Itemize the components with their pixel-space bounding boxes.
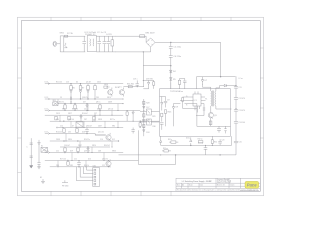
svg-text:Q16 4k7: Q16 4k7 bbox=[64, 145, 70, 147]
wire stub bbox=[85, 161, 87, 167]
HV rail left drop bbox=[196, 77, 198, 89]
svg-text:C9: C9 bbox=[167, 99, 170, 101]
svg-text:A4: A4 bbox=[182, 184, 184, 187]
inner border frame bbox=[21, 21, 260, 192]
svg-text:R6: R6 bbox=[73, 88, 75, 90]
svg-text:C18: C18 bbox=[147, 120, 150, 122]
svg-text:R37 1n: R37 1n bbox=[110, 119, 115, 121]
transistor Q1 bbox=[108, 90, 113, 95]
wire row A bbox=[50, 83, 123, 85]
capacitor C21 bbox=[204, 145, 208, 155]
bridge diode marks bbox=[148, 39, 153, 45]
junction dot bbox=[70, 103, 71, 104]
capacitor C18 bbox=[142, 119, 145, 120]
svg-text:C24: C24 bbox=[60, 126, 63, 128]
svg-text:Q36 100: Q36 100 bbox=[68, 119, 74, 121]
svg-text:R10 4k7: R10 4k7 bbox=[82, 113, 88, 115]
svg-text:C37: C37 bbox=[94, 113, 97, 115]
wire Q4 row bbox=[95, 134, 106, 136]
frame zone ticks bottom bbox=[51, 191, 171, 196]
wire stub bbox=[111, 141, 113, 147]
title block row line 3 bbox=[176, 187, 260, 189]
resistor R14 bbox=[68, 116, 70, 120]
svg-text:C15: C15 bbox=[239, 142, 242, 144]
svg-text:C4: C4 bbox=[84, 109, 86, 111]
neutral drop wire bbox=[143, 52, 171, 87]
svg-text:ZD38: ZD38 bbox=[56, 139, 60, 141]
resistor R15 bbox=[93, 116, 95, 120]
ground rail upper bbox=[161, 136, 232, 145]
svg-text:VR4: VR4 bbox=[112, 126, 115, 128]
capacitor C16 bbox=[77, 161, 81, 167]
svg-text:C6 220u: C6 220u bbox=[174, 56, 182, 58]
wire stub bbox=[79, 141, 81, 147]
junction rail-bottom bbox=[235, 108, 236, 109]
opto U3 bbox=[147, 119, 152, 125]
controller IC1 bbox=[193, 94, 201, 106]
snubber diode D7 bbox=[201, 77, 203, 85]
junction dot bbox=[65, 140, 66, 141]
rail segment bbox=[235, 99, 237, 109]
svg-text:Size: Size bbox=[177, 185, 180, 187]
clamp resistor R22 bbox=[178, 80, 180, 84]
ground stub E1 bbox=[41, 179, 45, 184]
svg-text:VR33: VR33 bbox=[112, 151, 116, 153]
diode D17 bbox=[143, 106, 145, 108]
junction dot bbox=[57, 103, 58, 104]
small box U4 bbox=[76, 122, 83, 127]
svg-text:ZD7: ZD7 bbox=[84, 119, 87, 121]
clamp capacitor C7 bbox=[180, 79, 187, 89]
component C20 bbox=[218, 139, 222, 145]
junction dot bbox=[64, 110, 65, 111]
current sense stub bbox=[193, 104, 197, 127]
svg-text:D1 3: D1 3 bbox=[45, 97, 49, 99]
frame zone ticks right bbox=[260, 48, 263, 138]
zener D5 on bulk line bbox=[170, 66, 173, 89]
svg-text:C12 470: C12 470 bbox=[239, 98, 245, 100]
wire row G bbox=[58, 127, 123, 129]
rail segment bbox=[235, 123, 237, 141]
svg-text:C14 100: C14 100 bbox=[239, 122, 245, 124]
svg-text:R28: R28 bbox=[146, 102, 149, 104]
svg-text:VR27: VR27 bbox=[68, 113, 72, 115]
resistor R9 bbox=[104, 86, 108, 88]
rail segment bbox=[235, 111, 237, 121]
wire stub bbox=[91, 147, 93, 153]
inner wire to bottom bbox=[166, 113, 174, 126]
junction dot bbox=[94, 121, 95, 122]
svg-text:Q36 4k7: Q36 4k7 bbox=[86, 126, 92, 128]
svg-text:D15: D15 bbox=[97, 109, 100, 111]
varistor RV1 bbox=[64, 43, 67, 48]
svg-text:SW1: SW1 bbox=[60, 33, 65, 35]
resistor R26 bbox=[126, 112, 128, 115]
svg-text:D1 0: D1 0 bbox=[45, 151, 49, 153]
svg-text:C3: C3 bbox=[60, 97, 62, 99]
svg-text:VR30: VR30 bbox=[68, 139, 72, 141]
aux winding components bbox=[196, 104, 205, 116]
junction dot bbox=[111, 146, 112, 147]
svg-text:C5 220u: C5 220u bbox=[174, 47, 182, 49]
svg-text:D15 x: D15 x bbox=[186, 138, 190, 140]
junction dot bbox=[78, 160, 79, 161]
diode D11 bbox=[86, 104, 88, 111]
svg-text:ZD37: ZD37 bbox=[78, 145, 82, 147]
svg-text:D18: D18 bbox=[146, 132, 149, 134]
svg-text:L2 xx: L2 xx bbox=[239, 78, 243, 80]
resistor R6 chain bbox=[70, 84, 72, 99]
resistor R16 bbox=[63, 129, 65, 133]
wire stub bbox=[83, 121, 85, 127]
svg-text:S: S bbox=[186, 105, 188, 107]
wire primary bottom to mosfet bbox=[210, 106, 212, 113]
svg-text:D19 R36: D19 R36 bbox=[146, 79, 153, 81]
junction dot bbox=[104, 127, 105, 128]
bulk capacitor C6 bbox=[169, 56, 173, 66]
resistor R29 bbox=[143, 114, 145, 117]
svg-text:D1 4: D1 4 bbox=[45, 82, 49, 84]
connector wires bbox=[76, 167, 92, 181]
junction dot bbox=[74, 110, 75, 111]
capacitor C2 bbox=[97, 36, 101, 52]
svg-text:C21 1n: C21 1n bbox=[198, 143, 203, 145]
svg-text:D1 2: D1 2 bbox=[45, 109, 49, 111]
diode D15 bbox=[190, 137, 192, 145]
resistor R25 inner bbox=[164, 110, 166, 114]
wire row F bbox=[50, 120, 160, 122]
IC1 pin stubs bbox=[180, 97, 206, 104]
svg-text:R33 xx: R33 xx bbox=[163, 148, 168, 150]
svg-text:Q3: Q3 bbox=[214, 115, 218, 117]
bridge rectifier BR1 bbox=[146, 36, 155, 52]
wire stub bbox=[71, 153, 73, 161]
svg-text:R4: R4 bbox=[173, 71, 176, 73]
left block labels bbox=[26, 32, 155, 187]
svg-text:R32 xx: R32 xx bbox=[198, 139, 203, 141]
wire secondary bottom bbox=[216, 106, 232, 109]
junction HV bbox=[220, 76, 221, 77]
transistor Q2 bbox=[119, 90, 124, 95]
logo Pace bbox=[240, 181, 259, 191]
snubber cap C8 bbox=[217, 126, 221, 132]
junction dot bbox=[86, 103, 87, 104]
svg-text:D17: D17 bbox=[146, 107, 149, 109]
junction dot bbox=[83, 127, 84, 128]
zener chain left bbox=[37, 140, 41, 169]
frame zone ticks left bbox=[18, 48, 22, 173]
svg-text:R34 2k2: R34 2k2 bbox=[104, 145, 110, 147]
capacitor C15 bbox=[85, 128, 89, 134]
junction neutral mid bbox=[142, 65, 144, 67]
svg-text:C4: C4 bbox=[70, 102, 72, 104]
net arrow D14 bbox=[45, 83, 50, 85]
wire cluster to neutral bbox=[123, 86, 144, 88]
svg-text:D7: D7 bbox=[205, 80, 208, 82]
wire row K bbox=[50, 152, 123, 154]
capacitor C1 bbox=[82, 36, 86, 52]
wire stub bbox=[104, 121, 106, 127]
startup chain R36 bbox=[153, 82, 155, 85]
wire stub bbox=[103, 153, 105, 161]
output rail bbox=[235, 76, 237, 86]
svg-text:PE GND: PE GND bbox=[62, 185, 69, 187]
resistor R27 bbox=[139, 123, 141, 126]
resistor R33 bbox=[164, 150, 168, 152]
wire plug to connector bbox=[57, 43, 61, 45]
svg-text:ZD24: ZD24 bbox=[97, 82, 101, 84]
svg-text:L.C Switching Power Supply - 5: L.C Switching Power Supply - 50 HRF bbox=[182, 180, 213, 183]
resistor R1 bbox=[111, 36, 113, 52]
earth chain cap bars bbox=[30, 143, 33, 158]
junction startup bbox=[143, 80, 144, 81]
svg-text:ZD8: ZD8 bbox=[98, 151, 101, 153]
wire secondary top to output diode bbox=[216, 86, 224, 91]
wire stub bbox=[117, 104, 119, 111]
svg-text:E1: E1 bbox=[40, 177, 42, 179]
junction dot bbox=[59, 121, 60, 122]
diode D16 bbox=[132, 111, 134, 122]
svg-text:D7: D7 bbox=[72, 126, 74, 128]
svg-text:D20: D20 bbox=[56, 119, 59, 121]
bulk feed into box bbox=[170, 83, 172, 89]
svg-text:D37: D37 bbox=[83, 102, 86, 104]
transformer T1 secondary winding bbox=[214, 91, 217, 106]
IC1 bottom pin stubs bbox=[195, 91, 200, 112]
svg-text:CN1: CN1 bbox=[93, 166, 96, 168]
svg-text:C4 R1: C4 R1 bbox=[106, 34, 113, 36]
connector CN1 bbox=[93, 168, 100, 187]
wire row H bbox=[50, 134, 106, 136]
svg-text:Q1 x: Q1 x bbox=[106, 87, 110, 89]
svg-text:VR1: VR1 bbox=[53, 100, 56, 102]
HV rail bbox=[197, 76, 236, 78]
junction row B bbox=[94, 98, 95, 99]
junction row A bbox=[70, 83, 71, 84]
svg-text:C19 x: C19 x bbox=[133, 79, 138, 81]
svg-text:R27 100: R27 100 bbox=[60, 159, 66, 161]
net arrow row D bbox=[45, 110, 50, 112]
resistor R19 bbox=[77, 148, 79, 152]
wire bridge to transformer corner bbox=[155, 42, 221, 76]
resistor R12 bbox=[99, 105, 101, 109]
svg-text:C13 470: C13 470 bbox=[239, 110, 245, 112]
junction dot bbox=[111, 115, 112, 116]
wire stub bbox=[59, 115, 61, 121]
svg-text:R36 1k: R36 1k bbox=[84, 165, 89, 167]
svg-text:D10: D10 bbox=[88, 159, 91, 161]
junction dot bbox=[87, 152, 88, 153]
capacitor C17 bbox=[131, 128, 134, 134]
junction dot bbox=[117, 127, 118, 128]
junction dot bbox=[62, 127, 63, 128]
svg-text:R34: R34 bbox=[214, 142, 217, 144]
svg-text:R31 x: R31 x bbox=[168, 139, 172, 141]
resistor R7 chain bbox=[79, 84, 81, 99]
svg-text:C: C bbox=[26, 147, 28, 149]
svg-text:R5: R5 bbox=[173, 79, 176, 81]
svg-text:www.paceworldwide.com: www.paceworldwide.com bbox=[240, 189, 259, 192]
middle labels bbox=[167, 80, 218, 117]
svg-text:T1: T1 bbox=[205, 99, 208, 101]
resistor R34 bbox=[211, 140, 213, 144]
wire stub bbox=[117, 121, 119, 127]
box bottom rail bbox=[197, 125, 231, 127]
feedback column wire bbox=[143, 99, 145, 136]
svg-text:Q21 2k2: Q21 2k2 bbox=[98, 132, 104, 134]
svg-text:F1 T2A: F1 T2A bbox=[67, 32, 73, 35]
wire stub bbox=[99, 111, 101, 116]
relay K1 bbox=[41, 147, 48, 152]
svg-text:R37 47k: R37 47k bbox=[72, 109, 78, 111]
junction neutral-caps bbox=[170, 65, 171, 66]
rail labels bbox=[239, 78, 245, 144]
wire filter to caps bbox=[96, 36, 115, 52]
resistor R10 bbox=[64, 105, 66, 109]
svg-text:Q2 x: Q2 x bbox=[118, 87, 122, 89]
resistor R24 inner bbox=[182, 98, 184, 101]
resistor R11 bbox=[74, 105, 76, 109]
output cap C15 bbox=[234, 141, 238, 143]
capacitor C9 inner bbox=[164, 97, 167, 108]
earth chain wire bbox=[30, 138, 32, 165]
resistor R28 bbox=[143, 101, 145, 104]
svg-text:R6 47k: R6 47k bbox=[59, 102, 64, 104]
svg-text:R35 2M2: R35 2M2 bbox=[127, 84, 134, 86]
title block row line 1 bbox=[176, 182, 260, 184]
wire row B bbox=[50, 98, 123, 100]
wire stub bbox=[87, 104, 89, 111]
svg-text:K1: K1 bbox=[41, 146, 43, 148]
inner edge components bbox=[161, 97, 163, 111]
junction dot bbox=[79, 146, 80, 147]
svg-text:C16: C16 bbox=[100, 139, 103, 141]
left block density: extra stubs and labels bbox=[58, 99, 118, 167]
svg-text:D4: D4 bbox=[76, 82, 78, 84]
svg-text:C11: C11 bbox=[239, 87, 242, 89]
line filter LF1 bbox=[87, 36, 96, 52]
svg-text:ZD3: ZD3 bbox=[56, 165, 59, 167]
svg-text:Q28 47k: Q28 47k bbox=[82, 97, 88, 99]
inductor L3 bottom bbox=[160, 136, 162, 145]
capacitor C4 bbox=[107, 36, 111, 52]
junction row F bbox=[140, 121, 141, 122]
svg-text:D29: D29 bbox=[70, 151, 73, 153]
diode D13b bbox=[87, 147, 89, 153]
wire row D bbox=[50, 110, 140, 112]
opto U2 bbox=[147, 109, 152, 115]
svg-text:VR5: VR5 bbox=[70, 165, 73, 167]
svg-text:C22: C22 bbox=[56, 151, 59, 153]
junction dot bbox=[99, 115, 100, 116]
diode D12 bbox=[80, 115, 82, 121]
wire stub bbox=[70, 99, 72, 104]
top chain labels bbox=[60, 32, 182, 81]
junction dot bbox=[75, 127, 76, 128]
net arrow row K bbox=[45, 152, 50, 154]
net arrow D13 bbox=[45, 98, 50, 100]
svg-text:Date: Date bbox=[200, 184, 203, 187]
resistor R13 bbox=[55, 116, 57, 120]
svg-text:R14 2k2: R14 2k2 bbox=[56, 132, 62, 134]
title block col lines bbox=[182, 178, 241, 188]
svg-text:TOP204YAI xx: TOP204YAI xx bbox=[170, 90, 183, 93]
wire row L bbox=[45, 160, 139, 162]
wire stub bbox=[94, 115, 96, 121]
svg-text:ZD19: ZD19 bbox=[56, 113, 60, 115]
return wire bbox=[138, 130, 175, 164]
earth ground arrow bbox=[30, 166, 33, 169]
junction bulk top bbox=[170, 42, 171, 43]
column junction dots bbox=[143, 103, 144, 104]
resistor R17 bbox=[76, 129, 78, 133]
svg-text:R29: R29 bbox=[152, 116, 155, 118]
svg-text:D6: D6 bbox=[70, 97, 72, 99]
net arrow row H bbox=[45, 133, 50, 135]
startup cap C19 bbox=[136, 80, 139, 86]
svg-text:ZD5: ZD5 bbox=[96, 97, 99, 99]
svg-text:Q5 4k7: Q5 4k7 bbox=[86, 82, 91, 84]
wire row M bbox=[50, 166, 110, 168]
wire mosfet to box bottom bbox=[210, 118, 212, 127]
output cap C11 bbox=[234, 87, 238, 89]
transformer T1 primary winding bbox=[210, 91, 213, 106]
outer border frame bbox=[18, 17, 264, 196]
transistor Q4 bbox=[106, 135, 111, 140]
diode D6 on bulk line bbox=[170, 78, 173, 81]
junction dot bbox=[122, 103, 123, 104]
rail segment to bottom bbox=[235, 143, 237, 155]
svg-text:250VAC X2: 250VAC X2 bbox=[85, 33, 96, 36]
svg-text:Q19 4k7: Q19 4k7 bbox=[84, 151, 90, 153]
resistor R32 bbox=[198, 141, 203, 143]
fuse F1 bbox=[64, 35, 67, 37]
svg-text:Scale: Scale bbox=[189, 185, 193, 187]
wire stub bbox=[57, 161, 59, 167]
svg-text:R24 22u: R24 22u bbox=[84, 139, 90, 141]
output cap C13 bbox=[234, 110, 238, 112]
svg-text:C35: C35 bbox=[68, 132, 71, 134]
wire to bridge bbox=[115, 36, 151, 52]
junction dot bbox=[91, 152, 92, 153]
AC plug P1 bbox=[53, 41, 57, 46]
svg-text:R30: R30 bbox=[153, 126, 156, 128]
svg-text:ZD37: ZD37 bbox=[98, 126, 102, 128]
bulk capacitor C5 bbox=[169, 42, 173, 55]
output diode D10 bbox=[224, 84, 236, 87]
junction dots extra bbox=[127, 110, 128, 111]
subcircuit boundary box bbox=[160, 89, 231, 136]
junction dots bottom bbox=[205, 145, 206, 146]
resistor R21 bbox=[67, 162, 69, 166]
startup diode D19 bbox=[143, 80, 149, 88]
resistor R8 chain bbox=[94, 84, 96, 99]
title block row line 2 bbox=[176, 185, 260, 187]
rail segment bbox=[235, 88, 237, 97]
svg-text:D28: D28 bbox=[82, 132, 85, 134]
junction dot bbox=[117, 110, 118, 111]
junction row I bbox=[118, 140, 119, 141]
title block outline bbox=[176, 178, 260, 191]
wire stub bbox=[70, 121, 72, 127]
svg-text:VR4: VR4 bbox=[62, 109, 65, 111]
junction dot bbox=[85, 166, 86, 167]
svg-text:D9: D9 bbox=[176, 106, 179, 108]
svg-text:C22: C22 bbox=[102, 165, 105, 167]
label bits bottom left bbox=[62, 180, 68, 182]
wire row C bbox=[58, 103, 123, 105]
svg-text:Pace: Pace bbox=[247, 183, 257, 188]
